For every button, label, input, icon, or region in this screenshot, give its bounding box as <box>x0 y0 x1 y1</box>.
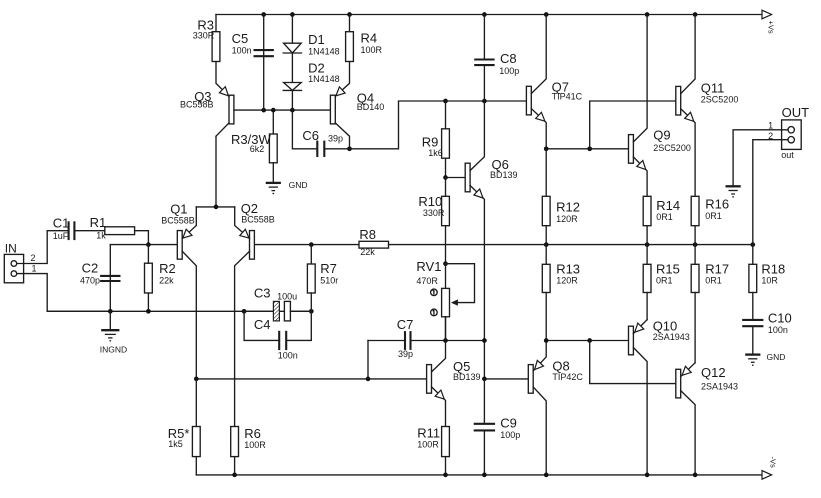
svg-text:1N4148: 1N4148 <box>308 74 340 84</box>
wire R2 <box>147 245 149 312</box>
svg-text:C10: C10 <box>768 310 792 325</box>
svg-text:C5: C5 <box>232 31 249 46</box>
capacitor C5 <box>254 50 274 56</box>
svg-text:C8: C8 <box>500 51 517 66</box>
resistor R14 <box>643 196 651 244</box>
wire Q3 base line <box>234 109 331 111</box>
wire bias line <box>544 338 592 343</box>
capacitor C9 <box>474 379 495 475</box>
svg-text:470R: 470R <box>416 276 438 286</box>
pin 2 label OUT <box>768 131 773 141</box>
wire vas riser <box>350 101 527 149</box>
capacitor C10 <box>742 320 763 355</box>
junction RV1 top <box>443 261 448 266</box>
label Q8 <box>552 359 583 382</box>
wire Q12 base <box>590 341 676 384</box>
label OUT <box>781 105 809 160</box>
label Q10 <box>653 319 690 343</box>
wire Q10 base <box>590 340 629 342</box>
svg-text:BC558B: BC558B <box>241 215 275 225</box>
wire diode column <box>291 15 293 111</box>
svg-text:GND: GND <box>767 352 786 362</box>
svg-text:0R1: 0R1 <box>656 212 673 222</box>
wire Q7em to Q9 base <box>544 146 629 151</box>
wire C7 branch <box>366 341 371 382</box>
svg-text:1k: 1k <box>96 230 106 240</box>
svg-text:R7: R7 <box>320 261 337 276</box>
wire OUT pin2 to output <box>753 140 788 245</box>
transistor Q1 <box>177 207 196 379</box>
label R16 <box>705 196 729 221</box>
ground GND out <box>726 186 741 197</box>
label C7 <box>397 317 414 359</box>
transistor Q9 <box>629 15 648 197</box>
label R11 <box>417 426 440 450</box>
svg-text:0R1: 0R1 <box>705 211 722 221</box>
svg-text:RV1: RV1 <box>416 259 441 274</box>
transistor Q3 <box>216 62 234 137</box>
svg-text:D1: D1 <box>308 32 325 47</box>
pin 2 label <box>31 253 36 263</box>
label R17 <box>705 261 729 285</box>
wire IN pin1 to ground line <box>17 274 111 312</box>
transistor Q4 <box>330 62 349 149</box>
svg-text:C2: C2 <box>82 261 99 276</box>
svg-text:Q1: Q1 <box>170 202 187 217</box>
label R15 <box>656 261 680 285</box>
svg-text:C7: C7 <box>397 317 414 332</box>
label R4 <box>361 30 383 54</box>
label C3 <box>254 285 297 301</box>
label C9 <box>500 416 520 440</box>
diode D1 <box>283 43 301 53</box>
transistor Q8 <box>528 341 546 475</box>
wire mid line <box>110 244 753 246</box>
ground GND right <box>745 355 760 366</box>
transistor Q11 <box>676 15 695 197</box>
wire R1 to node <box>135 231 149 245</box>
resistor R15 <box>643 245 651 320</box>
wire C8 column <box>483 15 485 102</box>
label R8 <box>359 227 376 257</box>
resistor R18 <box>749 245 757 320</box>
wire OUT pin1 to ground <box>733 130 788 187</box>
resistor R6 <box>231 427 239 475</box>
svg-text:2SC5200: 2SC5200 <box>653 143 691 153</box>
svg-text:TIP42C: TIP42C <box>552 372 583 382</box>
resistor R16 <box>691 196 699 244</box>
label R7 <box>320 261 338 286</box>
label Q7 <box>552 80 583 102</box>
label Q6 <box>490 157 518 180</box>
svg-text:22k: 22k <box>159 276 174 286</box>
wire emitter tail <box>196 136 234 209</box>
label Q2 <box>241 201 275 225</box>
svg-text:39p: 39p <box>398 349 413 359</box>
capacitor C4 <box>244 311 311 350</box>
wire C2 column <box>109 245 111 312</box>
resistor R2 <box>145 263 153 293</box>
svg-text:39p: 39p <box>328 133 343 143</box>
transistor Q7 <box>526 15 546 149</box>
svg-text:470p: 470p <box>80 276 100 286</box>
svg-text:100u: 100u <box>277 291 297 301</box>
svg-text:0R1: 0R1 <box>656 276 673 286</box>
svg-text:10R: 10R <box>761 276 778 286</box>
svg-text:100n: 100n <box>278 350 298 360</box>
label IN <box>5 242 17 256</box>
label GND mid <box>289 180 308 190</box>
capacitor C7 <box>368 331 484 350</box>
label C8 <box>499 51 519 76</box>
label D2 <box>308 61 340 85</box>
wire +Vs top rail <box>216 14 762 16</box>
resistor R8 <box>359 241 389 248</box>
wire C6 right <box>324 146 352 151</box>
label C10 <box>768 310 792 335</box>
capacitor C6 <box>317 141 324 157</box>
svg-text:INGND: INGND <box>100 345 127 355</box>
resistor R7 <box>307 245 315 312</box>
svg-text:Q9: Q9 <box>653 128 670 143</box>
label R12 <box>556 200 580 224</box>
label C6 <box>302 128 343 143</box>
transistor Q10 <box>629 320 648 475</box>
label RV1 <box>416 259 441 286</box>
svg-text:120R: 120R <box>556 214 578 224</box>
pin 1 label OUT <box>768 121 773 131</box>
pin circle 3 <box>431 309 438 316</box>
junction mid dots <box>146 242 755 247</box>
label Q9 <box>653 128 691 154</box>
svg-text:BC558B: BC558B <box>180 99 214 109</box>
svg-text:C9: C9 <box>500 416 517 431</box>
junction bottom rail dots <box>232 473 697 478</box>
svg-text:R16: R16 <box>705 196 729 211</box>
svg-text:100p: 100p <box>499 66 519 76</box>
label R9 <box>422 134 443 157</box>
svg-text:510r: 510r <box>320 276 338 286</box>
svg-text:C4: C4 <box>254 317 271 332</box>
svg-text:TIP41C: TIP41C <box>552 92 583 102</box>
wire C1-R1 <box>74 230 104 232</box>
svg-text:R17: R17 <box>705 261 729 276</box>
svg-text:C3: C3 <box>254 285 271 300</box>
label R2 <box>159 261 176 286</box>
wire IN pin2 to C1 <box>17 231 69 264</box>
svg-text:R12: R12 <box>556 200 580 215</box>
power -Vs arrow <box>762 457 778 480</box>
svg-text:R2: R2 <box>159 261 176 276</box>
connector OUT <box>782 120 802 149</box>
resistor R4 <box>346 32 354 62</box>
resistor R3/3W <box>269 110 277 183</box>
svg-text:R14: R14 <box>656 198 680 213</box>
label R14 <box>656 198 680 222</box>
wire R4 top <box>349 15 351 32</box>
potentiometer RV1 <box>442 264 475 341</box>
resistor R3 <box>212 32 220 62</box>
diode D2 <box>283 83 301 91</box>
svg-text:1: 1 <box>32 264 37 274</box>
wire Q5 base line <box>194 377 427 382</box>
junction vas dots <box>443 99 487 104</box>
label Q1 <box>161 202 195 226</box>
svg-text:out: out <box>781 150 794 160</box>
svg-text:R15: R15 <box>656 261 680 276</box>
capacitor C2 <box>100 276 120 281</box>
label R13 <box>556 261 580 285</box>
label Q12 <box>701 365 738 391</box>
resistor R1 <box>105 227 135 235</box>
label Q11 <box>701 81 739 105</box>
svg-text:Q12: Q12 <box>701 365 726 380</box>
svg-text:100R: 100R <box>417 440 439 450</box>
svg-text:1N4148: 1N4148 <box>308 46 340 56</box>
label C4 <box>254 317 298 360</box>
wire C6 left <box>292 110 317 149</box>
svg-text:R8: R8 <box>359 227 376 242</box>
capacitor C8 <box>474 60 494 66</box>
label GND right <box>767 352 786 362</box>
svg-text:BD139: BD139 <box>453 372 481 382</box>
svg-text:22k: 22k <box>360 247 375 257</box>
svg-text:2SA1943: 2SA1943 <box>701 381 738 391</box>
svg-text:0R1: 0R1 <box>705 276 722 286</box>
label Q5 <box>453 359 481 382</box>
transistor Q5 <box>427 317 446 427</box>
label C1 <box>53 216 70 242</box>
label INGND <box>100 345 127 355</box>
svg-text:IN: IN <box>5 242 17 256</box>
svg-text:120R: 120R <box>556 275 578 285</box>
label R6 <box>244 426 266 450</box>
svg-text:C6: C6 <box>302 128 319 143</box>
svg-text:2: 2 <box>31 253 36 263</box>
label D1 <box>308 32 340 57</box>
label R3/3W <box>231 132 271 154</box>
resistor R17 <box>691 245 699 363</box>
label C2 <box>80 261 100 286</box>
svg-text:BD140: BD140 <box>357 102 385 112</box>
svg-text:R13: R13 <box>556 261 580 276</box>
svg-text:Q11: Q11 <box>701 81 725 96</box>
transistor Q2 <box>235 207 255 427</box>
wire C5 column <box>263 15 265 111</box>
svg-text:100n: 100n <box>232 45 252 55</box>
junction base line dots <box>261 108 294 113</box>
wire Q8 base <box>482 377 528 382</box>
svg-text:OUT: OUT <box>782 105 810 120</box>
svg-text:R18: R18 <box>761 261 785 276</box>
svg-text:1: 1 <box>768 121 773 131</box>
label R18 <box>761 261 785 285</box>
svg-text:GND: GND <box>289 180 308 190</box>
wire input bottom line <box>47 310 311 312</box>
resistor R13 <box>542 245 550 341</box>
junction input bottom dots <box>108 309 314 314</box>
wire Q11 base riser <box>590 101 676 149</box>
label R10 <box>418 194 445 218</box>
svg-text:-Vs: -Vs <box>769 457 778 469</box>
svg-text:100p: 100p <box>500 430 520 440</box>
resistor R9 <box>442 101 450 178</box>
resistor R12 <box>542 149 550 245</box>
junction top rail dots <box>261 12 697 17</box>
svg-text:R11: R11 <box>417 426 440 441</box>
capacitor C3 <box>244 301 311 321</box>
svg-text:1k6: 1k6 <box>428 148 443 158</box>
svg-text:100R: 100R <box>244 440 266 450</box>
svg-text:+Vs: +Vs <box>767 21 776 34</box>
svg-text:100n: 100n <box>768 325 788 335</box>
svg-text:100R: 100R <box>361 45 383 55</box>
svg-text:330R: 330R <box>193 30 215 40</box>
resistor R5* <box>192 379 200 475</box>
svg-text:2SC5200: 2SC5200 <box>701 95 739 105</box>
svg-text:BC558B: BC558B <box>161 215 195 225</box>
svg-text:2SA1943: 2SA1943 <box>653 332 690 342</box>
svg-text:R6: R6 <box>244 426 261 441</box>
resistor R11 <box>442 427 450 475</box>
svg-text:BD139: BD139 <box>490 170 518 180</box>
svg-text:330R: 330R <box>423 208 445 218</box>
label R1 <box>90 215 107 241</box>
ground GND mid <box>266 183 281 194</box>
svg-text:C1: C1 <box>53 216 70 231</box>
svg-text:1uF: 1uF <box>53 231 69 241</box>
power +Vs arrow <box>762 10 776 34</box>
svg-text:6k2: 6k2 <box>250 144 265 154</box>
transistor Q6 <box>446 101 485 379</box>
ground INGND <box>101 311 119 341</box>
svg-text:R1: R1 <box>90 215 107 230</box>
junction Q6 base <box>443 175 448 180</box>
wire R3 top <box>215 15 217 32</box>
capacitor C1 <box>69 221 75 240</box>
label Q3 <box>180 89 214 109</box>
label R5* <box>168 426 190 449</box>
connector IN <box>4 254 23 282</box>
label R3 <box>193 18 215 41</box>
svg-text:R4: R4 <box>361 30 378 45</box>
transistor Q12 <box>676 363 695 475</box>
pin circle 1 <box>431 289 438 296</box>
pin 1 label <box>32 264 37 274</box>
svg-text:1k5: 1k5 <box>168 439 183 449</box>
junction C7 line dots <box>443 338 487 343</box>
wire -Vs bottom rail <box>196 474 762 476</box>
label C5 <box>232 31 252 55</box>
resistor R10 <box>442 178 450 264</box>
label Q4 <box>357 90 385 112</box>
